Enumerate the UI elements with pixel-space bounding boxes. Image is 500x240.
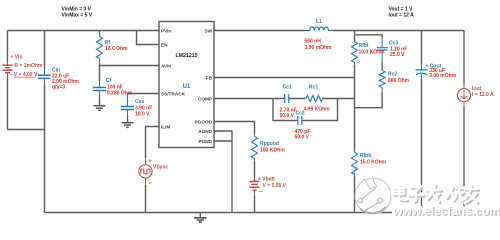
wire Cc3 to Rc2 bbox=[381, 63, 383, 71]
wire left rail lower with jog to Cin branch bbox=[8, 77, 45, 130]
capacitor Cc1 bbox=[280, 85, 297, 120]
svg-text:Rpgood: Rpgood bbox=[260, 141, 279, 147]
wire comp network right leg bbox=[302, 99, 338, 121]
svg-text:25.0 V: 25.0 V bbox=[390, 52, 405, 58]
battery Vbatt bbox=[250, 177, 287, 196]
svg-text:Rc2: Rc2 bbox=[388, 72, 397, 78]
svg-text:Css: Css bbox=[135, 99, 144, 105]
wire SW output rail bbox=[214, 30, 464, 32]
ground on bottom rail bbox=[194, 213, 207, 223]
wire SS/TRACK bbox=[128, 93, 160, 95]
svg-text:VSync: VSync bbox=[153, 164, 169, 170]
svg-text:50.0 V: 50.0 V bbox=[280, 113, 295, 119]
wire EN connection bbox=[137, 31, 160, 45]
wire Rpgood to Vbatt bbox=[254, 159, 256, 162]
wire AGND bbox=[214, 131, 232, 213]
svg-text:4.99 KOhm: 4.99 KOhm bbox=[304, 107, 331, 113]
wire Cf branch bbox=[99, 66, 101, 82]
svg-text:15.0 KOhm: 15.0 KOhm bbox=[360, 160, 387, 166]
svg-text:VinMax = 5 V: VinMax = 5 V bbox=[62, 13, 93, 19]
svg-text:560 nH: 560 nH bbox=[305, 39, 322, 45]
wire Cin branch vertical bbox=[44, 31, 46, 213]
wire right output rail down bbox=[463, 31, 465, 85]
wire Cc1 to Rc1 bbox=[289, 98, 306, 100]
svg-text:Cf: Cf bbox=[106, 78, 112, 84]
wire PGND bbox=[214, 140, 232, 142]
wire FB pin bbox=[214, 77, 355, 79]
svg-text:+: + bbox=[148, 159, 152, 165]
wire Vbatt to bottom rail bbox=[254, 191, 256, 196]
resistor Rfbb bbox=[352, 153, 387, 175]
watermark logo elecfans bbox=[355, 176, 391, 214]
svg-text:3.00 mOhm: 3.00 mOhm bbox=[429, 73, 457, 79]
svg-text:qty=3: qty=3 bbox=[52, 85, 65, 91]
wire VSync to bottom rail bbox=[145, 178, 147, 185]
svg-text:3.90 mOhm: 3.90 mOhm bbox=[305, 45, 333, 51]
wire Vout node stub to Cc3 branch bbox=[355, 35, 383, 38]
svg-text:L1: L1 bbox=[316, 19, 322, 25]
battery source Vin bbox=[3, 55, 43, 79]
svg-text:−: − bbox=[259, 189, 263, 195]
wire left rail upper bbox=[7, 31, 9, 63]
wire bottom ground rail bbox=[45, 212, 465, 214]
svg-text:10.0 V: 10.0 V bbox=[135, 111, 150, 117]
wire FB vertical node bbox=[354, 63, 356, 66]
svg-text:U1: U1 bbox=[183, 84, 191, 90]
current source Iout bbox=[457, 86, 494, 102]
svg-text:806 Ohm: 806 Ohm bbox=[388, 78, 410, 84]
source VSync bbox=[139, 159, 169, 187]
wire Rf bottom to AVin node bbox=[99, 59, 101, 64]
svg-text:AGND: AGND bbox=[198, 129, 212, 134]
wire AVin bbox=[100, 65, 160, 67]
svg-text:COMP: COMP bbox=[198, 96, 212, 101]
svg-text:100 KOhm: 100 KOhm bbox=[260, 148, 285, 154]
wire Rc1 to FB node bbox=[323, 98, 355, 100]
resistor Rc2 bbox=[379, 71, 410, 93]
wire PGOOD bbox=[214, 122, 255, 134]
wire comp network left leg bbox=[273, 99, 298, 121]
svg-text:50.0 V: 50.0 V bbox=[295, 135, 310, 141]
svg-text:Iout = 12 A: Iout = 12 A bbox=[389, 13, 415, 19]
ground below Css bbox=[122, 116, 134, 128]
svg-text:SW: SW bbox=[204, 28, 212, 33]
capacitor Cc2 bbox=[295, 111, 311, 141]
node VinMin/VinMax annotation bbox=[62, 7, 93, 19]
wire Rc2 bottom to FB node bbox=[355, 93, 383, 108]
svg-text:LM21215: LM21215 bbox=[176, 53, 198, 59]
node Vout/Iout annotation bbox=[389, 7, 415, 19]
ground below Cf bbox=[94, 97, 106, 111]
inductor L1 bbox=[304, 19, 333, 51]
capacitor Cf bbox=[93, 78, 133, 97]
svg-text:Rfbt: Rfbt bbox=[359, 43, 369, 49]
resistor Rfbt bbox=[352, 31, 386, 63]
svg-text:I = 12.0 A: I = 12.0 A bbox=[472, 92, 494, 98]
watermark text dianzifashaoyou bbox=[394, 185, 479, 203]
capacitor Cc3 bbox=[377, 38, 408, 63]
svg-text:−: − bbox=[148, 181, 152, 187]
svg-text:V = 5.00 V: V = 5.00 V bbox=[263, 183, 287, 189]
svg-text:PVin: PVin bbox=[161, 28, 171, 33]
svg-text:AVin: AVin bbox=[161, 63, 171, 68]
wire COMP pin bbox=[214, 98, 285, 100]
svg-text:www.elecfans.com: www.elecfans.com bbox=[392, 204, 500, 218]
IC U1 LM21215 regulator box with pin labels bbox=[159, 22, 214, 148]
svg-text:Cc2: Cc2 bbox=[296, 111, 305, 117]
wire top input rail bbox=[8, 30, 160, 32]
capacitor Css bbox=[121, 94, 152, 118]
svg-text:+ Vin: + Vin bbox=[11, 55, 23, 61]
svg-text:SS/TRACK: SS/TRACK bbox=[161, 91, 186, 96]
wire Rf branch from top rail bbox=[99, 31, 101, 33]
svg-text:Rc1: Rc1 bbox=[309, 85, 318, 91]
wire ILIM to VSync bbox=[146, 127, 160, 159]
wire Rfbb to bottom rail bbox=[354, 173, 356, 176]
resistor Rf bbox=[97, 37, 129, 59]
svg-text:EN: EN bbox=[161, 42, 168, 47]
svg-text:Cc1: Cc1 bbox=[283, 85, 292, 91]
capacitor Cout bbox=[416, 31, 457, 213]
svg-text:PGND: PGND bbox=[198, 139, 212, 144]
svg-text:FB: FB bbox=[206, 75, 213, 80]
svg-text:ILIM: ILIM bbox=[161, 124, 170, 129]
wire Iout to bottom rail bbox=[463, 102, 465, 107]
watermark text www.elecfans.com bbox=[392, 204, 500, 219]
svg-text:R = 1mOhm: R = 1mOhm bbox=[15, 63, 43, 69]
svg-text:10.0 KOhm: 10.0 KOhm bbox=[359, 50, 386, 56]
resistor Rpgood bbox=[252, 137, 286, 159]
svg-text:+ Vbatt: + Vbatt bbox=[258, 177, 275, 183]
svg-text:10.0 Ohm: 10.0 Ohm bbox=[105, 46, 128, 52]
svg-text:− V = 4.00 V: − V = 4.00 V bbox=[10, 72, 38, 78]
capacitor Cin bbox=[38, 68, 80, 91]
svg-text:Rfbb: Rfbb bbox=[360, 153, 371, 159]
resistor Rc1 bbox=[304, 85, 331, 113]
svg-text:PGOOD: PGOOD bbox=[195, 119, 213, 124]
